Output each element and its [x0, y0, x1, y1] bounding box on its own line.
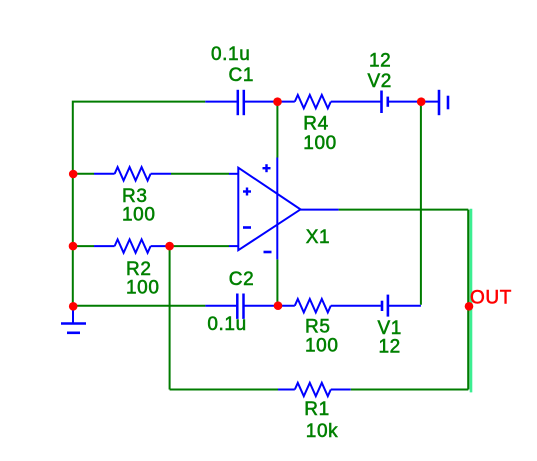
- node ground junction: [69, 302, 78, 311]
- node R2 right junction: [165, 242, 174, 251]
- svg-text:C2: C2: [229, 269, 255, 290]
- resistor R5: [278, 299, 381, 312]
- svg-text:12: 12: [379, 337, 401, 358]
- wire: OUT highlight bright green line: [470, 209, 473, 393]
- svg-text:OUT: OUT: [470, 288, 512, 309]
- resistor R4: [278, 95, 381, 108]
- svg-text:100: 100: [126, 277, 160, 298]
- ground battery symbol top right: [421, 90, 448, 115]
- svg-text:100: 100: [305, 336, 339, 357]
- svg-text:100: 100: [303, 133, 337, 154]
- svg-text:10k: 10k: [306, 421, 338, 442]
- battery V2: [382, 91, 421, 114]
- wire: R3 right to op-amp + input: [171, 173, 229, 175]
- node OUT junction: [465, 302, 474, 311]
- node C1/R4 junction: [273, 97, 282, 106]
- svg-text:0.1u: 0.1u: [211, 44, 250, 65]
- wire: V+ rail green above op-amp: [276, 102, 278, 158]
- node C2/R5 junction: [274, 301, 283, 310]
- svg-text:R5: R5: [305, 316, 331, 337]
- svg-text:V2: V2: [368, 71, 392, 92]
- wire: R1 row left green: [170, 389, 278, 391]
- svg-text:R1: R1: [304, 399, 330, 420]
- svg-text:100: 100: [122, 205, 156, 226]
- node R2 left junction: [69, 242, 78, 251]
- ground: [61, 306, 86, 333]
- node R3 left junction: [69, 170, 78, 179]
- resistor R2: [94, 239, 170, 252]
- wire: battery rail vertical x=421: [420, 102, 422, 305]
- node V2 right junction: [417, 97, 426, 106]
- wire: feedback vertical from R2 node down to R1 row: [169, 246, 171, 389]
- svg-text:R4: R4: [303, 114, 329, 135]
- wire: R3 left lead net: [72, 173, 94, 175]
- battery V1: [382, 295, 421, 317]
- wire: top horizontal net from left column to C1: [73, 102, 206, 307]
- svg-text:X1: X1: [306, 227, 330, 248]
- svg-text:0.1u: 0.1u: [207, 314, 246, 335]
- svg-text:C1: C1: [229, 65, 255, 86]
- resistor R1: [278, 383, 351, 396]
- wire: V- rail green below op-amp: [276, 259, 278, 305]
- wire: ground row to C2: [72, 305, 205, 307]
- wire: output net horizontal: [339, 209, 469, 211]
- wire: R2 left lead net: [72, 245, 94, 247]
- op-amp X1: [229, 158, 339, 260]
- resistor R3: [94, 167, 171, 180]
- wire: R1 row right green: [351, 389, 469, 391]
- node junction dots: [69, 97, 474, 310]
- wire: R2 right to op-amp - input: [170, 245, 229, 247]
- wire: output net vertical down to R1: [467, 210, 469, 390]
- capacitor C1: [205, 90, 277, 115]
- capacitor C2: [205, 294, 278, 319]
- svg-text:12: 12: [369, 51, 391, 72]
